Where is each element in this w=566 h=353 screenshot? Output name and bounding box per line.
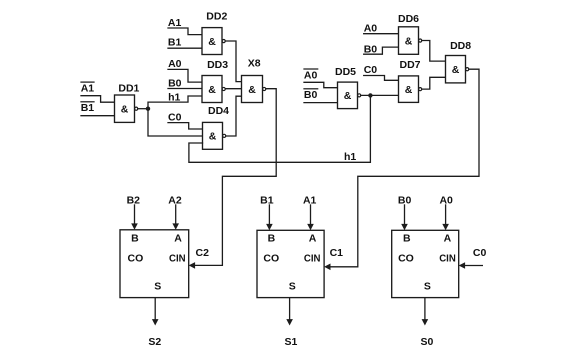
label DD4: [208, 105, 229, 117]
wire B0 to DD6 pin 2: [364, 47, 399, 54]
arrowhead of carry C2 into adder 1 CIN: [189, 262, 223, 269]
svg-text:C0: C0: [364, 64, 378, 76]
svg-text:S: S: [154, 281, 161, 293]
svg-text:C1: C1: [330, 247, 344, 259]
label DD3: [207, 59, 228, 71]
svg-text:B1: B1: [81, 102, 95, 114]
svg-text:A: A: [444, 232, 452, 244]
svg-text:A0: A0: [304, 69, 318, 81]
svg-text:A0: A0: [439, 194, 453, 206]
pin label CIN inside adder 3: [439, 253, 456, 265]
svg-text:B: B: [268, 232, 276, 244]
svg-text:A1: A1: [303, 194, 317, 206]
full adder block 1 body: [120, 230, 189, 298]
svg-text:&: &: [248, 84, 256, 96]
svg-text:&: &: [405, 35, 413, 47]
wire DD7 output to DD8 pin 2: [422, 77, 446, 89]
svg-text:&: &: [208, 84, 216, 96]
wire DD1 node down to DD4 pin 2: [148, 109, 203, 136]
pin label S inside adder 2: [289, 281, 296, 293]
wire C0 to DD7 pin 1: [364, 76, 399, 81]
NAND gate DD5: [338, 82, 361, 109]
svg-text:C0: C0: [168, 111, 182, 123]
svg-text:S2: S2: [148, 336, 161, 348]
label h1 (input of DD3): [168, 92, 180, 104]
svg-text:&: &: [208, 36, 216, 48]
svg-text:DD3: DD3: [207, 59, 228, 71]
label DD8: [450, 40, 471, 52]
NAND gate X8: [242, 76, 266, 103]
NAND gate DD3: [202, 76, 225, 103]
full adder block 2 body: [257, 230, 324, 297]
label B0 (inverted input of DD5): [304, 89, 318, 101]
svg-text:B2: B2: [127, 194, 141, 206]
label S1 below adder 2: [284, 336, 297, 348]
wire X8 output down and left to C2: [222, 89, 276, 266]
wire A0 to DD6 pin 1: [364, 33, 399, 35]
node at DD1 output: [146, 107, 150, 111]
wire h1 from DD5 node down left and up to DD4 pin 3: [189, 95, 371, 162]
svg-text:S: S: [289, 281, 296, 293]
label B1 (inverted input of DD1): [81, 102, 95, 114]
svg-text:DD6: DD6: [398, 13, 419, 25]
pin label CIN inside adder 1: [169, 253, 186, 265]
svg-text:CIN: CIN: [169, 253, 186, 265]
arrow input B2 into adder 1: [131, 204, 138, 230]
svg-text:&: &: [121, 104, 129, 116]
pin label A inside adder 2: [309, 232, 317, 244]
svg-text:&: &: [344, 90, 352, 102]
svg-text:h1: h1: [344, 151, 356, 163]
wire B1 to DD1 pin 2: [81, 115, 115, 117]
svg-text:A: A: [174, 232, 182, 244]
svg-text:DD1: DD1: [118, 82, 139, 94]
svg-text:CO: CO: [398, 253, 414, 265]
label A0 (inverted input of DD5): [304, 69, 318, 81]
svg-text:&: &: [452, 64, 460, 76]
wire B0 to DD5 pin 2: [304, 102, 338, 104]
svg-text:A0: A0: [168, 58, 182, 70]
arrow input A1 into adder 2: [307, 204, 314, 230]
pin label B inside adder 3: [403, 232, 411, 244]
svg-text:A0: A0: [364, 23, 378, 35]
NAND gate DD1: [115, 95, 138, 122]
svg-text:DD8: DD8: [450, 40, 471, 52]
label A0 (input of DD6): [364, 23, 378, 35]
svg-text:&: &: [405, 84, 413, 96]
label C0 (input of DD7): [364, 64, 378, 76]
arrow input A0 into adder 3: [442, 204, 449, 230]
label DD5: [335, 66, 356, 78]
label A1 (inverted input of DD1): [81, 82, 95, 94]
full adder block 3 body: [392, 230, 459, 297]
label X8: [248, 57, 261, 69]
overline for input A1 of DD1: [81, 81, 94, 83]
svg-text:S: S: [424, 281, 431, 293]
NAND gate DD7: [399, 76, 422, 103]
pin label CO inside adder 1: [128, 253, 144, 265]
wire B1 to DD2 pin 2: [168, 47, 202, 49]
svg-text:B1: B1: [168, 37, 182, 49]
label C2 at CIN of adder 1: [196, 247, 210, 259]
pin label A inside adder 1: [174, 232, 182, 244]
label S0 below adder 3: [420, 336, 433, 348]
label A1 (input of DD2): [168, 17, 182, 29]
arrow output S of adder 2 to S1: [286, 298, 293, 326]
label DD2: [206, 11, 227, 23]
wire DD4 output to X8 pin 3: [226, 96, 242, 136]
svg-text:DD4: DD4: [208, 105, 229, 117]
svg-text:DD2: DD2: [206, 11, 227, 23]
wire A1 to DD1 pin 1: [81, 96, 115, 103]
svg-text:A: A: [309, 232, 317, 244]
overline for input A0 of DD5: [304, 68, 318, 70]
label B0 (input of DD3): [168, 78, 182, 90]
NAND gate DD4: [203, 122, 226, 149]
pin label CO inside adder 3: [398, 253, 414, 265]
label S2 below adder 1: [148, 336, 161, 348]
arrow input C0 into adder 3 CIN: [459, 262, 483, 269]
svg-text:CIN: CIN: [304, 253, 321, 265]
svg-text:DD7: DD7: [400, 59, 421, 71]
label A2 above adder 1: [168, 194, 182, 206]
overline for input B1 of DD1: [81, 101, 94, 103]
wire A0 to DD3 pin 1: [168, 69, 202, 82]
label DD6: [398, 13, 419, 25]
svg-text:B: B: [403, 232, 411, 244]
NAND gate DD8: [446, 56, 469, 83]
label DD7: [400, 59, 421, 71]
pin label S inside adder 3: [424, 281, 431, 293]
arrow output S of adder 1 to S2: [152, 298, 159, 326]
NAND gate DD6: [399, 27, 422, 55]
label h1 on long wire: [344, 151, 356, 163]
label A0 above adder 3: [439, 194, 453, 206]
svg-text:B0: B0: [168, 78, 182, 90]
arrow input B0 into adder 3: [401, 204, 408, 230]
arrow input A2 into adder 1: [172, 204, 179, 230]
NAND gate DD2: [202, 28, 225, 55]
wire A1 to DD2 pin 1: [168, 28, 202, 35]
pin label CIN inside adder 2: [304, 253, 321, 265]
wire DD1 output to node: [138, 108, 148, 110]
svg-text:CIN: CIN: [439, 253, 456, 265]
svg-text:X8: X8: [248, 57, 261, 69]
svg-text:C2: C2: [196, 247, 210, 259]
svg-text:DD5: DD5: [335, 66, 356, 78]
wire B0 to DD3 pin 2: [168, 88, 202, 90]
overline for input B0 of DD5: [304, 88, 318, 90]
svg-text:A1: A1: [81, 82, 95, 94]
svg-text:S0: S0: [420, 336, 433, 348]
pin label B inside adder 1: [131, 232, 139, 244]
svg-text:&: &: [209, 131, 217, 143]
label DD1: [118, 82, 139, 94]
svg-text:CO: CO: [128, 253, 144, 265]
svg-text:C0: C0: [473, 247, 487, 259]
svg-text:B1: B1: [260, 194, 274, 206]
label A1 above adder 2: [303, 194, 317, 206]
wire DD8 output down and left to C1: [358, 69, 479, 267]
wire DD5 output to DD7 pin 2: [361, 94, 399, 96]
pin label A inside adder 3: [444, 232, 452, 244]
svg-text:CO: CO: [263, 253, 279, 265]
label B0 above adder 3: [398, 194, 412, 206]
svg-text:B0: B0: [304, 89, 318, 101]
pin label CO inside adder 2: [263, 253, 279, 265]
arrow input B1 into adder 2: [266, 204, 273, 230]
pin label S inside adder 1: [154, 281, 161, 293]
svg-text:h1: h1: [168, 92, 180, 104]
svg-text:S1: S1: [284, 336, 297, 348]
wire DD3 output to X8 pin 2: [225, 88, 241, 90]
wire A0 to DD5 pin 1: [304, 82, 338, 87]
pin label B inside adder 2: [268, 232, 276, 244]
node h1 at DD5 output: [368, 93, 372, 97]
label C1 at CIN of adder 2: [330, 247, 344, 259]
arrow output S of adder 3 to S0: [422, 298, 429, 326]
label C0 at CIN of adder 3: [473, 247, 487, 259]
label B2 above adder 1: [127, 194, 141, 206]
wire DD1 node up to DD3 pin 3: [148, 96, 202, 109]
svg-text:B: B: [131, 232, 139, 244]
arrowhead of carry C1 into adder 2 CIN: [324, 264, 358, 271]
wire C0 to DD4 pin 1: [168, 123, 203, 129]
label B0 (input of DD6): [364, 44, 378, 56]
wire DD6 output to DD8 pin 1: [422, 41, 446, 62]
label B1 (input of DD2): [168, 37, 182, 49]
label B1 above adder 2: [260, 194, 274, 206]
wire DD2 output to X8 pin 1: [225, 41, 241, 82]
label A0 (input of DD3): [168, 58, 182, 70]
label C0 (input of DD4): [168, 111, 182, 123]
